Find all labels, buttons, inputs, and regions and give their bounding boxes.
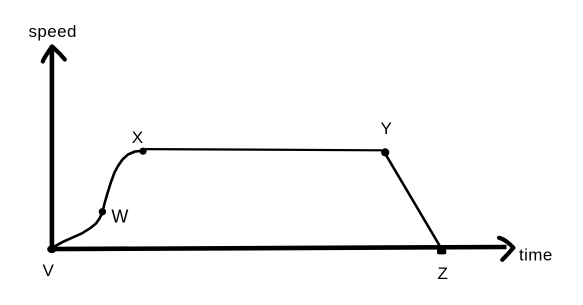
svg-text:Y: Y — [381, 119, 392, 138]
svg-text:Z: Z — [438, 264, 448, 283]
svg-text:speed: speed — [29, 22, 77, 41]
svg-text:V: V — [43, 261, 55, 280]
svg-text:X: X — [132, 128, 143, 147]
svg-text:W: W — [111, 207, 128, 227]
svg-text:time: time — [519, 246, 553, 265]
